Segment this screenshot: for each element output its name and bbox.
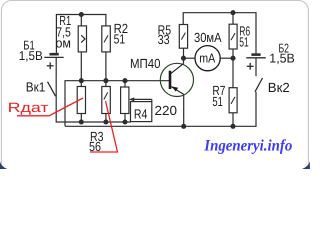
svg-text:51: 51: [239, 34, 249, 49]
svg-text:30мА: 30мА: [194, 30, 222, 45]
wire R6 bottom stub: [232, 49, 234, 58]
wire B1 bottom stub: [55, 57, 57, 78]
wire right rail: [183, 13, 256, 54]
switch Vk2 blade: [255, 78, 263, 92]
junction node above R1: [79, 12, 84, 17]
junction node rail above R6: [230, 10, 235, 15]
wire mA meter to R6 node: [220, 57, 233, 59]
svg-text:51: 51: [212, 94, 223, 109]
resistor R6: [229, 24, 237, 49]
wire B2 bottom stub: [255, 58, 257, 76]
junction node collector/R5: [181, 56, 186, 61]
switch Vk1 blade: [48, 82, 56, 97]
potentiometer R4: [121, 87, 152, 114]
page frame: [1, 1, 308, 179]
resistor R2: [102, 26, 111, 52]
red pointer line Rdat: [17, 98, 83, 116]
wire lower bus: [65, 92, 256, 127]
wire R4 bottom stub: [124, 114, 126, 123]
wire top-left rail: [56, 15, 106, 54]
transistor Q1 MP40: [160, 63, 193, 96]
svg-text:Вк2: Вк2: [268, 80, 290, 95]
svg-text:mA: mA: [199, 50, 215, 65]
wire R1 top stub: [80, 15, 82, 26]
red pointer line R3: [90, 101, 118, 152]
R4 label box: [131, 102, 152, 122]
svg-text:Вк1: Вк1: [26, 80, 46, 95]
svg-text:1,5В: 1,5В: [269, 51, 295, 66]
junction node R4 bottom: [122, 119, 127, 124]
junction node R3 bottom: [103, 119, 108, 124]
wire R2 bottom to middle bus: [105, 52, 107, 87]
wire R3 bottom stub: [105, 114, 107, 123]
milliammeter mA: [195, 46, 220, 71]
svg-text:Rдат: Rдат: [8, 100, 49, 115]
wire R5 bottom to collector node: [183, 48, 185, 63]
svg-text:1,5В: 1,5В: [19, 48, 43, 63]
junction node R1/Rdat middle bus: [79, 78, 84, 83]
wire middle bus (base net): [65, 81, 170, 127]
wire upper bus (switch return): [56, 79, 131, 122]
resistor Rdat (sensor): [77, 87, 85, 114]
junction node emitter on lower bus: [181, 124, 186, 129]
wire R7 bottom stub: [232, 113, 234, 127]
wire R6 node to R7 top: [232, 58, 234, 87]
wire emitter to lower bus: [183, 94, 185, 126]
svg-text:ом: ом: [56, 36, 72, 51]
junction node mA/R6/R7: [230, 56, 235, 61]
svg-text:R4: R4: [134, 106, 148, 121]
svg-text:33: 33: [158, 32, 170, 47]
svg-text:Ingeneryi.info: Ingeneryi.info: [203, 138, 292, 155]
resistor R1: [78, 26, 86, 52]
battery B1: [44, 54, 63, 69]
wire R1 bottom to middle bus: [80, 52, 82, 87]
junction node R4 top / base: [122, 78, 127, 83]
junction node Rdat bottom: [79, 119, 84, 124]
corner accent bottom-left: [0, 161, 7, 169]
svg-text:220: 220: [155, 103, 178, 118]
resistor R7: [229, 88, 237, 113]
wire Rdat resistor bottom stub: [80, 114, 82, 123]
corner accent bottom-right: [302, 162, 310, 170]
svg-text:МП40: МП40: [130, 56, 161, 71]
battery B2: [246, 55, 265, 70]
wire R4 top stub: [124, 81, 126, 87]
resistor R3: [102, 87, 111, 114]
resistor R5: [179, 25, 187, 49]
junction node R2/R3 middle bus: [103, 78, 108, 83]
wire collector node to mA meter: [184, 57, 196, 59]
wire R6 top stub: [232, 13, 234, 25]
svg-text:51: 51: [114, 32, 126, 47]
junction node R7 bottom on lower bus: [230, 124, 235, 129]
